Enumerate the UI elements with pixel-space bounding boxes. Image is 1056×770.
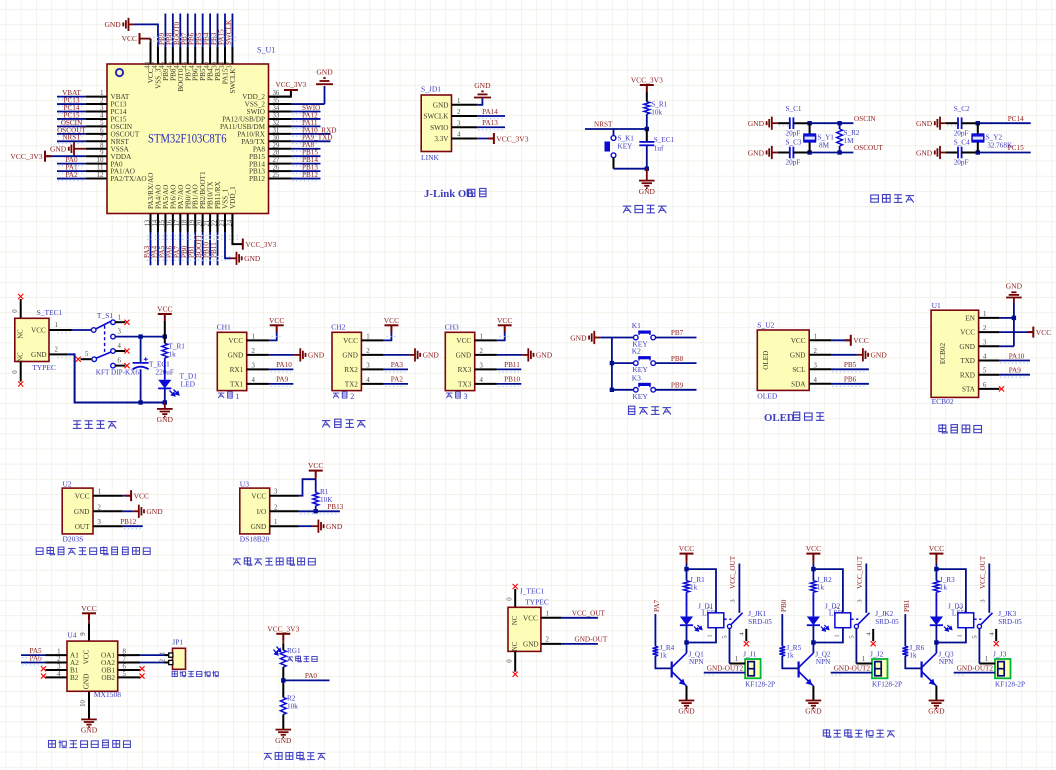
svg-text:0: 0 [12, 309, 19, 313]
wire PB0 to base resistor [781, 614, 783, 646]
pin 45 PB8 (top) [172, 47, 174, 64]
ground GND relay [929, 701, 945, 709]
svg-text:GND-OUT2: GND-OUT2 [957, 664, 994, 672]
svg-text:PA3: PA3 [391, 361, 404, 369]
svg-text:20pF: 20pF [786, 129, 801, 137]
svg-text:NPN: NPN [689, 658, 704, 666]
svg-text:1: 1 [100, 90, 103, 97]
wire I/O PB13 [299, 510, 340, 512]
resistor S_R2 1M [839, 123, 841, 129]
power VCC [158, 313, 172, 315]
svg-text:VCC: VCC [791, 337, 806, 345]
svg-text:45: 45 [167, 61, 174, 68]
svg-text:GND: GND [748, 148, 765, 157]
ground GND CH2 [409, 348, 420, 361]
wire collector [686, 643, 688, 654]
LED J_D1 [680, 617, 693, 626]
svg-text:GND: GND [228, 352, 244, 360]
pin 4 TXD [979, 360, 1000, 362]
pin 2 A2 [46, 662, 67, 664]
wire PB10 [497, 383, 521, 385]
pin 1 GND [452, 104, 478, 106]
key circuit group [570, 321, 696, 414]
svg-text:2: 2 [274, 504, 278, 511]
svg-text:PA6: PA6 [30, 654, 43, 662]
svg-text:NC: NC [512, 641, 519, 651]
pin 1 EN [979, 317, 1000, 319]
pin 1 VBAT (left) [86, 96, 107, 98]
ground GND light [276, 730, 292, 738]
pin 28 PB15 (right) [269, 155, 292, 157]
LED T_D1 [158, 380, 171, 389]
svg-text:D203S: D203S [63, 535, 84, 544]
svg-text:S_R1: S_R1 [651, 101, 667, 109]
wire PA7 to base resistor [654, 614, 656, 646]
svg-text:48: 48 [144, 61, 151, 68]
svg-text:PB6: PB6 [844, 376, 857, 384]
wire GND [123, 510, 133, 512]
pin 2 VCC [979, 331, 1000, 333]
pin 20 PB2/BOOT1 (bottom) [202, 214, 204, 233]
wire coil return [687, 628, 717, 643]
OLED module group [757, 321, 887, 425]
junction crystal top [807, 121, 811, 125]
ground GND CH1 [294, 348, 305, 361]
wire gnd to S_C3 [778, 152, 789, 154]
pin 36 VDD_2 (right) [269, 96, 292, 98]
svg-text:23: 23 [219, 219, 226, 226]
J_J pin1 wire from relay pin5 [979, 663, 995, 665]
svg-text:RG1: RG1 [287, 647, 301, 655]
pin 0 bottom [514, 651, 516, 671]
relay stage 3 group [902, 544, 1025, 716]
svg-text:GND-OUT2: GND-OUT2 [834, 664, 871, 672]
svg-text:PA9: PA9 [1009, 367, 1022, 375]
svg-text:4: 4 [57, 671, 61, 678]
wire to node [282, 667, 284, 697]
wire EN to gnd riser [999, 317, 1014, 319]
ground GND keys [589, 331, 600, 344]
wire net PA8 [291, 148, 320, 150]
svg-text:S_C1: S_C1 [786, 105, 802, 113]
wire net PA2 [57, 178, 86, 180]
svg-text:3.3V: 3.3V [434, 135, 449, 143]
svg-text:R2: R2 [287, 695, 296, 703]
svg-text:5: 5 [123, 671, 127, 678]
pin 35 VSS_2 (right) [269, 103, 292, 105]
svg-text:K1: K1 [632, 321, 641, 330]
svg-text:VCC_3V3: VCC_3V3 [267, 624, 299, 633]
relay pin3 VCC_OUT wire [865, 564, 867, 613]
svg-text:GND: GND [146, 507, 163, 516]
wire net PB15 [291, 155, 320, 157]
pin 6 OB1 [118, 669, 140, 671]
wire NRST [585, 128, 647, 130]
pin 34 SWIO (right) [269, 111, 292, 113]
pin 29 PA8 (right) [269, 148, 292, 150]
svg-text:10k: 10k [287, 703, 298, 711]
power VCC [929, 553, 943, 555]
wire collector [935, 643, 937, 654]
power VCC [270, 324, 284, 326]
svg-text:GND: GND [805, 707, 822, 716]
pin 3 GND [979, 345, 1000, 347]
svg-text:B2: B2 [70, 674, 79, 682]
wire GND down to rail [67, 354, 165, 402]
svg-text:VCC: VCC [31, 327, 46, 335]
wire S_C3 to node2 [793, 152, 809, 154]
relay coil branch wire [936, 569, 966, 613]
wire vcc down [812, 561, 814, 564]
svg-text:ECB02: ECB02 [939, 343, 947, 365]
svg-text:VCC: VCC [806, 544, 821, 553]
svg-text:LED: LED [181, 380, 196, 389]
svg-text:29: 29 [273, 142, 280, 149]
wire gnd to bus [600, 337, 612, 339]
relay coil J_JK3 SRD-05 [958, 613, 974, 628]
svg-text:TXD: TXD [960, 357, 975, 365]
ground GND DS18B20 [312, 520, 323, 533]
wire VSS_3 to GND [135, 24, 158, 47]
wire S_C2 to node [962, 122, 978, 124]
wire PA14 [477, 115, 505, 117]
svg-text:PB12: PB12 [249, 175, 265, 183]
relay pin3 VCC_OUT wire [988, 564, 990, 613]
resistor R2 10k [280, 697, 286, 714]
pin 42 PB6 (top) [194, 47, 196, 64]
svg-text:GND: GND [81, 726, 98, 735]
svg-text:16: 16 [167, 219, 174, 226]
svg-text:VCC: VCC [456, 337, 471, 345]
pin 2 GND wire [49, 353, 67, 355]
svg-text:6: 6 [123, 664, 127, 671]
svg-text:SWCLK: SWCLK [229, 68, 237, 94]
pin 7 OA2 [118, 662, 140, 664]
svg-text:9: 9 [80, 632, 87, 636]
svg-text:NPN: NPN [816, 658, 831, 666]
svg-text:GND: GND [678, 707, 695, 716]
wire VCC_OUT [561, 617, 598, 619]
wire net NRST [57, 140, 86, 142]
svg-text:1: 1 [834, 634, 841, 637]
junction crystal bottom [976, 150, 980, 154]
svg-text:VDD_1: VDD_1 [229, 186, 237, 209]
wire GND [384, 354, 409, 356]
wire PA13 [477, 126, 505, 128]
connector body S_JD1 [421, 95, 451, 152]
crystal subcircuit S_Y2 [916, 105, 1031, 167]
wire VCC up to power [497, 332, 505, 340]
svg-text:LINK: LINK [421, 153, 439, 162]
svg-text:DS18B20: DS18B20 [240, 535, 270, 544]
junction collector [934, 640, 938, 644]
relay switch dashed [974, 618, 982, 620]
wire VCC to switch pin2 [72, 329, 91, 331]
wire net PA9_TXD [291, 140, 330, 142]
svg-text:S_JD1: S_JD1 [421, 85, 441, 94]
svg-text:PB11: PB11 [504, 361, 520, 369]
J_J pin1 wire from relay pin5 [856, 663, 872, 665]
wire net PA15 [224, 14, 226, 48]
svg-text:GND-OUT: GND-OUT [575, 635, 608, 643]
wire VCC up to power [384, 332, 392, 340]
svg-text:PB11: PB11 [210, 242, 218, 258]
wire GND [497, 354, 522, 356]
title zhiliu dianji qudong mokuai [48, 740, 55, 747]
wire net PC13 [57, 103, 86, 105]
junction collector [684, 640, 688, 644]
svg-text:3: 3 [814, 362, 818, 369]
svg-text:PA2/TX/AO: PA2/TX/AO [111, 175, 147, 183]
pin 1 VCC wire [541, 617, 561, 619]
ground GND BT [1006, 292, 1022, 297]
svg-text:20pF: 20pF [954, 129, 969, 137]
wire net PB6 [194, 14, 196, 48]
pin 0 top [514, 589, 516, 607]
wire net SWCLK [231, 14, 233, 48]
svg-text:6: 6 [118, 358, 122, 365]
junction vcc rail [163, 334, 167, 338]
svg-text:20: 20 [196, 219, 203, 226]
resistor S_R1 10k [644, 102, 650, 114]
wire GND-OUT2 [704, 672, 745, 674]
relay pin5 wire [855, 629, 857, 664]
svg-text:VCC: VCC [679, 544, 694, 553]
svg-text:VCC: VCC [384, 316, 399, 325]
svg-text:14: 14 [152, 219, 159, 226]
pin 5 OSCIN (left) [86, 125, 107, 127]
wire coil return [813, 628, 843, 643]
svg-text:GND: GND [748, 119, 765, 128]
junction bottom cap [138, 400, 142, 404]
svg-text:15: 15 [159, 219, 166, 226]
svg-text:VCC_3V3: VCC_3V3 [246, 241, 277, 249]
pin 3 SWIO [452, 126, 478, 128]
wire VCC [123, 495, 131, 497]
pin 3 OUT [93, 525, 123, 527]
pin 5 RXD [979, 374, 1000, 376]
wire net PA7 [179, 232, 181, 265]
svg-text:7: 7 [123, 656, 127, 663]
pin 1 VCC [809, 339, 831, 341]
svg-text:NPN: NPN [939, 658, 954, 666]
svg-text:3: 3 [274, 489, 278, 496]
pin 16 PA6/AO (bottom) [172, 214, 174, 233]
svg-text:KF128-2P: KF128-2P [872, 681, 902, 689]
pin 6 STA [979, 388, 1000, 390]
capacitor S_C2 20pF [957, 117, 959, 129]
svg-text:VCC: VCC [122, 34, 137, 43]
JP1 pin1 [165, 654, 169, 656]
svg-text:1k: 1k [786, 652, 794, 660]
svg-text:2: 2 [55, 346, 59, 353]
relay pin5 wire [978, 629, 980, 664]
svg-text:VCC_OUT: VCC_OUT [979, 555, 987, 589]
capacitor S_C3 20pF [789, 147, 791, 159]
junction collector [811, 640, 815, 644]
relay switch dashed [724, 618, 732, 620]
wire GND-OUT2 [831, 672, 872, 674]
svg-text:3: 3 [856, 599, 863, 602]
resistor J_R3 1k [934, 581, 940, 593]
pin 48 VCC (top) [150, 47, 152, 64]
pin 3 VCC [270, 495, 299, 497]
power VCC_3V3 at VDD_2 [284, 89, 298, 91]
svg-text:7: 7 [100, 135, 104, 142]
pin 2 PC13 (left) [86, 103, 107, 105]
svg-text:SRD-05: SRD-05 [748, 618, 772, 626]
transistor J_Q3 NPN [922, 653, 937, 684]
svg-text:VCC: VCC [83, 649, 91, 664]
wire net OSCIN [57, 125, 86, 127]
svg-text:GND: GND [326, 522, 343, 531]
svg-text:GND: GND [83, 674, 91, 690]
svg-text:PA10: PA10 [276, 361, 292, 369]
pin 11 PA1/AO (left) [86, 170, 107, 172]
pin 2 GND [247, 354, 269, 356]
svg-text:J_TEC1: J_TEC1 [520, 587, 545, 596]
wire node down to cap [646, 129, 648, 142]
wire net PB7 [187, 14, 189, 48]
svg-text:VCC: VCC [134, 492, 149, 501]
pin 17 PA7/AO (bottom) [179, 214, 181, 233]
svg-text:4: 4 [457, 132, 461, 139]
svg-text:2: 2 [834, 606, 841, 609]
svg-text:PC14: PC14 [1008, 115, 1024, 123]
title guangzhao caiji dianlu [264, 753, 272, 759]
svg-text:GND: GND [1006, 282, 1023, 291]
svg-text:GND: GND [50, 145, 67, 154]
junction crystal top [976, 121, 980, 125]
svg-text:1: 1 [814, 333, 817, 340]
power VCC [850, 335, 852, 346]
pin 3 B1 [46, 669, 67, 671]
svg-text:PA7: PA7 [653, 599, 661, 612]
wire net PA1 [57, 170, 86, 172]
svg-text:NRST: NRST [594, 120, 613, 128]
title jingzhen dianlu [871, 195, 879, 202]
pin 31 PA10/RX (right) [269, 133, 292, 135]
svg-text:GND: GND [104, 20, 121, 29]
svg-text:37: 37 [226, 61, 233, 68]
svg-text:VCC: VCC [228, 337, 243, 345]
svg-text:NC: NC [512, 615, 519, 625]
svg-text:PA0: PA0 [305, 672, 318, 680]
svg-text:38: 38 [219, 61, 226, 68]
svg-text:8: 8 [100, 142, 104, 149]
svg-text:2: 2 [252, 348, 256, 355]
wire TXD PA10 [999, 360, 1030, 362]
wire pin1 to GND [477, 98, 482, 105]
switch pin1 [111, 320, 116, 325]
pin 1 VCC wire [49, 329, 72, 331]
svg-text:VCC: VCC [960, 329, 975, 337]
svg-text:PB12: PB12 [120, 518, 136, 526]
svg-text:GND: GND [790, 351, 806, 359]
wire net BOOT1 [202, 232, 204, 265]
svg-text:6: 6 [983, 382, 987, 389]
wire VSSA to ground [80, 148, 86, 150]
wire net PC14 [57, 111, 86, 113]
wire vcc down [935, 561, 937, 564]
module body MX1508 U4 [67, 641, 118, 691]
wire R to LED [686, 592, 688, 616]
svg-text:VCC: VCC [853, 336, 868, 345]
pin 4 3.3V [452, 137, 478, 139]
pin 8 OA1 [118, 654, 140, 656]
svg-text:2: 2 [546, 636, 550, 643]
wire base [905, 656, 921, 668]
pin 22 PB11/RX (bottom) [217, 214, 219, 233]
connector body J_TEC1 [508, 607, 541, 651]
svg-text:5: 5 [971, 635, 978, 638]
svg-text:TX1: TX1 [230, 381, 244, 389]
ground GND power [157, 409, 173, 417]
pin 4 TX1 [247, 383, 269, 385]
wire VDD_2 to VCC_3V3 [269, 90, 291, 97]
svg-text:PA10: PA10 [1009, 352, 1025, 360]
svg-text:2: 2 [480, 348, 484, 355]
pin 2 SWCLK [452, 115, 478, 117]
svg-text:S_K1: S_K1 [618, 135, 635, 143]
reset circuit group [585, 76, 675, 213]
svg-text:1: 1 [160, 652, 167, 655]
relay lever [854, 624, 858, 628]
pin 47 VSS_3 (top) [157, 47, 159, 64]
ground GND reset [639, 181, 655, 189]
wire net PA11 [291, 125, 320, 127]
pin 6 OSCOUT (left) [86, 133, 107, 135]
svg-text:1: 1 [546, 610, 549, 617]
svg-text:J-Link OB: J-Link OB [424, 188, 474, 200]
wire S_C4 to node2 [962, 152, 978, 154]
key K2 [610, 361, 614, 365]
module body D203S U2 [62, 488, 93, 534]
pin 1 VCC [361, 339, 383, 341]
svg-text:2: 2 [814, 348, 818, 355]
wire PB1 to base resistor [904, 614, 906, 646]
relay pin4 [745, 629, 747, 641]
relay pin3 VCC_OUT wire [738, 564, 740, 613]
J_J pin1 wire from relay pin5 [730, 663, 746, 665]
svg-text:CH2: CH2 [331, 323, 345, 332]
red X top pin0 [18, 294, 23, 299]
wire to gnd [282, 714, 284, 729]
svg-text:KF128-2P: KF128-2P [995, 681, 1025, 689]
svg-text:J_J2: J_J2 [870, 650, 884, 659]
capacitor T_EC1 220uF [140, 337, 142, 363]
title anjian dianlu [629, 406, 635, 414]
svg-text:1k: 1k [169, 351, 177, 359]
svg-text:1: 1 [983, 311, 986, 318]
op-amp U1 group: MCU S_U1 STM32F103C8T6 [10, 14, 336, 266]
svg-text:VCC: VCC [269, 316, 284, 325]
svg-text:21: 21 [204, 220, 211, 227]
pin 41 PB5 (top) [202, 47, 204, 64]
svg-text:27: 27 [273, 157, 280, 164]
wire net BOOT0 [179, 14, 181, 48]
svg-text:4: 4 [100, 112, 104, 119]
svg-text:1uf: 1uf [654, 145, 664, 153]
ground GND CH3 [522, 348, 533, 361]
wire gnd to S_C1 [778, 122, 789, 124]
pin 1 VCC [475, 339, 497, 341]
svg-text:2: 2 [160, 658, 167, 662]
wire LED to bottom [164, 388, 166, 402]
svg-text:44: 44 [174, 61, 181, 68]
relay lever [727, 624, 731, 628]
label zhiliu dianji chazuo [172, 671, 177, 676]
